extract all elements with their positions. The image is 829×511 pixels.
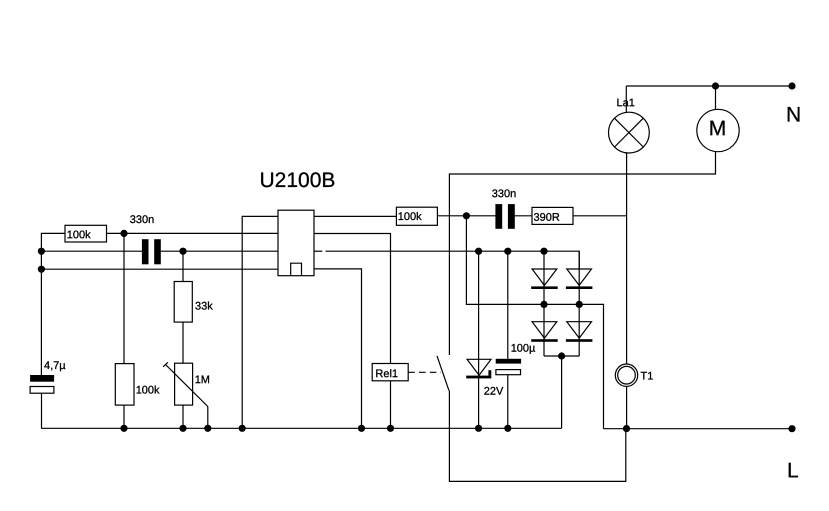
wire lamp bottom down to triac [626,153,628,364]
junction bridge bottom [558,352,565,359]
resistor R 100k vertical [115,364,160,406]
junction T1 / L line [623,425,630,432]
svg-text:100µ: 100µ [511,343,536,355]
wire IC pin1 left to vertical [242,216,278,428]
svg-text:330n: 330n [130,214,154,226]
wire 1M bottom [182,405,184,428]
wire 1M wiper down [207,407,209,429]
diode D2 [566,269,593,289]
wire down to 33k [182,251,184,281]
potentiometer R 1M [163,362,210,406]
svg-text:La1: La1 [616,97,634,109]
capacitor C 330n left [142,239,161,264]
zener diode 22V [466,359,491,378]
junction 100u branch [504,248,511,255]
svg-text:Rel1: Rel1 [375,368,398,380]
wire 4,7u bottom to rail [41,393,43,428]
wire 124 column bottom [123,405,125,428]
junction at N/motor branch [712,82,719,89]
diode D4 [566,322,593,342]
junction pin1 ground rail [239,425,246,432]
svg-text:1M: 1M [195,374,210,386]
wire motor bottom to line [449,152,715,355]
wire zener branch [478,251,480,428]
terminal dot N [788,82,795,89]
motor M [697,109,739,151]
wire 100k left to left column [41,233,65,375]
node L wire [604,428,793,430]
lamp La1 [609,112,650,153]
junction 100u rail [504,425,511,432]
junction rail wiper [204,425,211,432]
junction rail 1M column [179,425,186,432]
wire diode column 2 [578,251,580,356]
wire switch bottom loop to L [449,390,625,481]
resistor R 100k right [396,207,437,225]
junction left column / cap row [38,248,45,255]
relay contact dashed link [408,371,441,373]
junction zener rail [475,425,482,432]
resistor R 33k [174,282,213,323]
wire IC pin8 right to 100k [314,215,396,217]
junction 100k / R-divider node [120,230,127,237]
junction 330n / 33k node [179,248,186,255]
wire 124 column top [123,233,125,363]
junction rail 100k column [120,425,127,432]
diode D3 [531,322,558,342]
resistor R 100k top-left [65,225,107,242]
svg-text:22V: 22V [484,386,504,398]
svg-text:330n: 330n [492,188,516,200]
node N rail wire [626,85,792,87]
junction pin5 rail [358,425,365,432]
svg-text:100k: 100k [67,229,91,241]
wire 33k to 1M [182,322,184,363]
wire IC pin7 right to relay [314,234,391,364]
wire 100k to 330n [437,215,495,217]
IC U2100B [278,210,314,276]
ground rail wire [41,427,562,429]
diode D1 [531,269,558,289]
svg-text:100k: 100k [136,385,160,397]
wire IC pin5 right down [314,269,362,428]
wire lamp top [625,86,627,113]
capacitor C 4,7u electrolytic [30,375,54,393]
wire IC pin4 row [41,268,278,270]
svg-text:U2100B: U2100B [259,169,335,192]
capacitor C 100u [496,359,521,375]
wire cap row left [41,250,142,252]
wire 100u branch top [507,251,509,359]
wire bridge bottom join [544,355,579,357]
wire motor top [715,86,717,110]
svg-text:33k: 33k [195,301,213,313]
wire bridge bottom to rail [561,356,563,428]
wire diode column 1 [543,251,545,356]
junction diode column 1 [540,248,547,255]
capacitor C 330n right [495,204,514,229]
wire IC pin6 right (sync row) [314,250,322,252]
svg-text:390R: 390R [533,212,559,224]
junction left column / pin4 row [38,266,45,273]
svg-text:T1: T1 [640,371,653,383]
resistor R 390R [532,207,573,224]
svg-text:L: L [787,459,799,482]
triac T1 [615,364,637,386]
switch blade S1 [437,356,449,391]
terminal dot L [788,425,795,432]
svg-text:4,7µ: 4,7µ [44,360,66,372]
svg-text:M: M [709,117,727,140]
svg-text:100k: 100k [398,211,422,223]
svg-text:N: N [786,104,801,127]
relay coil Rel1 [372,364,408,381]
wire Rel1 bottom [390,381,392,429]
wire cap to IC pin3 [161,250,278,252]
wire 390R to lamp line [573,215,627,217]
wire 100k node down and across [466,216,603,429]
wire IC pin2 left [107,232,279,234]
junction 100k output node [463,212,470,219]
wire T1 bottom [626,386,628,428]
junction bridge right mid [576,301,583,308]
wire sync row continued [326,251,580,269]
junction Rel1 / rail [387,425,394,432]
junction zener branch [475,248,482,255]
junction bridge left mid [540,301,547,308]
wire 330n to 390R [515,215,532,217]
wire 100u bottom [507,375,509,429]
